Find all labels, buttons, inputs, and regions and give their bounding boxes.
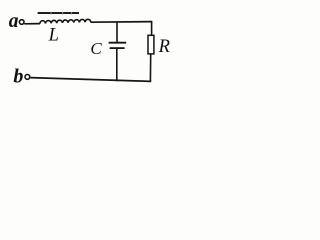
svg-text:L: L — [48, 26, 59, 46]
bottom wire b to right corner — [30, 78, 151, 82]
svg-text:C: C — [90, 39, 102, 58]
capacitor C bottom lead — [116, 48, 118, 81]
svg-text:b: b — [13, 65, 23, 87]
wire inductor to right corner — [91, 21, 153, 24]
resistor R bottom lead — [149, 54, 151, 82]
inductor L1 core bar — [38, 12, 79, 14]
svg-text:a: a — [9, 11, 19, 32]
terminal a — [19, 20, 24, 25]
wire a to inductor — [24, 23, 40, 25]
resistor R box — [148, 35, 154, 54]
capacitor C top plate — [109, 42, 127, 44]
capacitor C bottom plate — [110, 47, 125, 49]
resistor R top lead — [151, 21, 153, 35]
capacitor C top lead — [116, 22, 118, 43]
inductor L coil — [40, 19, 91, 23]
svg-text:R: R — [158, 37, 170, 57]
terminal b — [25, 75, 30, 80]
